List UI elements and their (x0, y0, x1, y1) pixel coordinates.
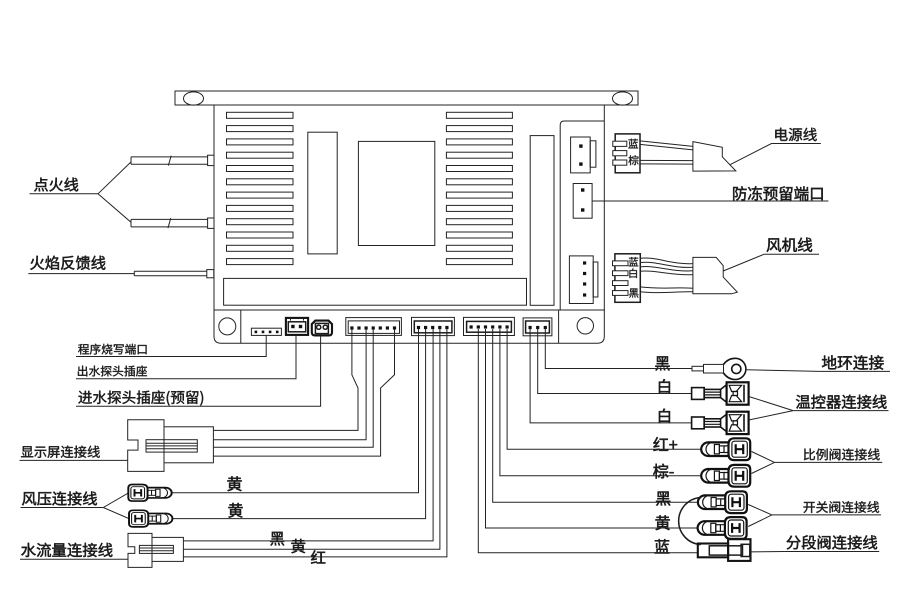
label hei4 (black) (656, 491, 670, 505)
thermostat label underline (793, 410, 888, 412)
outlet probe socket J2 (286, 318, 308, 335)
label fenduanfa lianjiexian (segmented valve connecting wire) (787, 535, 878, 549)
label bai (white) (629, 268, 636, 278)
label chengxu shaoxie duankou (programming port) (78, 344, 146, 355)
thermostat terminal 2 (692, 412, 749, 434)
right connector panel (560, 121, 604, 310)
prop valve label underline (775, 461, 883, 463)
connector CN1 (power header) (571, 137, 591, 173)
component block A (308, 132, 337, 254)
thermostat wire 1 (538, 329, 692, 394)
fan plug (693, 257, 737, 293)
flame feedback wire (134, 271, 207, 275)
display leader line (20, 459, 128, 461)
ignition fork lower (98, 194, 131, 223)
antifreeze line (592, 200, 828, 202)
switch valve wire 1 (493, 329, 698, 502)
connector CN3 (fan header) (569, 256, 593, 304)
prop valve terminal 2 (701, 465, 750, 487)
switch valve label underline (772, 514, 881, 516)
wind pressure leader (21, 507, 104, 509)
board footer strip (214, 310, 604, 343)
ground wire right (747, 370, 819, 372)
screw hole left (219, 318, 236, 335)
label dianhuoxian (ignition wire) (34, 178, 78, 192)
segment valve connector (698, 544, 728, 558)
label huoyanfankuixian (flame feedback wire) (30, 256, 105, 270)
display leader tick (128, 458, 133, 460)
display ribbon (146, 440, 197, 452)
water flow plug housing (128, 533, 152, 567)
ground label underline (819, 370, 890, 372)
label bai3 (white) (659, 409, 670, 423)
segment valve label underline (784, 551, 879, 553)
thermostat terminal 1 (692, 382, 749, 404)
water flow plug body (152, 537, 183, 561)
ground wire (545, 329, 692, 369)
display plug housing (128, 420, 164, 472)
label lan2 (blue) (629, 257, 638, 266)
thermostat wire 2 (530, 329, 692, 423)
inlet probe socket J3 (reserved) (312, 321, 332, 336)
mounting bar (175, 91, 638, 105)
switch valve terminal 2 (698, 517, 747, 539)
label dianyuanxian (power wire) (775, 128, 816, 141)
wind pressure wire 1 (172, 329, 419, 493)
wind pressure fork upper (103, 493, 128, 507)
label huang3 (yellow) (291, 539, 305, 553)
prop valve terminal 1 (701, 438, 750, 460)
label kaiguanfa lianjiexian (switch valve connecting wire) (803, 501, 879, 513)
label biliefa lianjiexian (proportional valve connecting wire) (804, 448, 880, 460)
ignition lead line (30, 193, 99, 195)
power plug (693, 142, 736, 172)
switch valve leader fork (748, 505, 772, 527)
label zong- (brown-) (653, 464, 673, 479)
flame feedback terminal (207, 270, 214, 278)
programming port connector J1 (251, 328, 281, 335)
label hei3 (black) (655, 356, 669, 370)
label hei2 (black) (270, 532, 284, 546)
switch valve terminal 1 (698, 491, 747, 513)
label hong2 (red) (311, 550, 325, 563)
thermostat leader fork (749, 397, 793, 421)
fan leader line (723, 254, 819, 271)
label shuiliuliang lianjiexian (water flow connecting wire) (21, 543, 112, 557)
water flow ribbon (139, 545, 173, 553)
fan pigtail block (615, 254, 640, 302)
water flow wire 2 (183, 329, 440, 549)
ignition wire upper (131, 157, 208, 164)
display wire 4 (213, 329, 394, 456)
programming port leader (76, 336, 266, 357)
display wire 1 (213, 329, 358, 430)
label jinshui tantou chazuo yuliu (inlet probe socket reserved) (78, 390, 203, 405)
label bai2 (white) (659, 379, 670, 393)
prop valve leader fork (752, 452, 775, 474)
wind pressure wire 2 (173, 329, 426, 519)
control board outline (214, 105, 604, 310)
wind pressure spade terminal 1 (128, 485, 171, 502)
power pigtail block (615, 134, 640, 173)
display header J4 (7-pin) (346, 318, 402, 336)
label lan3 (blue) (655, 539, 670, 553)
screw hole right (577, 318, 593, 334)
label hei (black) (629, 288, 638, 297)
water flow leader (20, 558, 128, 560)
label dihuan lianjie (ground ring connection) (822, 355, 884, 369)
label zong (brown) (628, 155, 638, 165)
connector CN2 (antifreeze header) (573, 184, 592, 219)
ground ring terminal (692, 366, 704, 371)
terminal strip block (224, 278, 527, 305)
mounting hole left (184, 92, 204, 105)
ignition terminal lower (208, 218, 214, 228)
switch valve slack loop arc (679, 498, 701, 545)
segment valve wire (478, 329, 698, 553)
prop valve wire 2 (500, 329, 701, 476)
ignition wire lower (131, 219, 208, 227)
water flow wire 3 (183, 329, 447, 557)
label chushui tantou chazuo (outlet probe socket) (78, 366, 147, 377)
sensor header J5 (5-pin) (412, 317, 455, 335)
wind pressure spade terminal 2 (129, 510, 172, 527)
label xianshiping lianjiexian (display connecting wire) (21, 446, 100, 458)
label huang1 (yellow) (227, 476, 241, 491)
thermostat header J7 (3-pin) (523, 318, 552, 336)
label fengjixian (fan wire) (767, 238, 813, 252)
label fengya lianjiexian (wind pressure connecting wire) (22, 491, 97, 505)
ignition terminal upper (208, 155, 214, 165)
label hong+ (red+) (653, 437, 677, 451)
display plug body (164, 427, 213, 463)
prop valve wire 1 (507, 329, 701, 449)
fan wires (640, 258, 693, 293)
power leader line (730, 144, 821, 165)
label wenkongqi lianjiexian (thermostat connecting wire) (796, 395, 887, 409)
flame feedback lead (28, 273, 134, 275)
mounting hole right (613, 92, 633, 105)
ignition fork upper (98, 162, 131, 194)
water flow wire 1 (183, 329, 433, 541)
valve header J6 (6-pin) (464, 317, 515, 335)
heat-sink slats right (446, 112, 512, 118)
label fangdong yuliu duankou (antifreeze reserved port) (733, 186, 823, 200)
inlet probe leader (76, 336, 321, 406)
power wires (640, 141, 693, 164)
label lan (blue) (628, 139, 638, 149)
relay block (central square) (358, 141, 434, 245)
label huang2 (yellow) (228, 503, 242, 518)
footer divider right (558, 310, 560, 343)
component block B (530, 136, 554, 306)
label huang4 (yellow) (655, 515, 669, 530)
segment valve wire right (751, 551, 785, 553)
heat-sink slats left (227, 112, 294, 118)
switch valve wire 2 (486, 329, 698, 528)
footer divider left (240, 310, 242, 343)
outlet probe leader (76, 335, 296, 379)
wind pressure fork lower (103, 508, 128, 519)
display wire 3 (213, 329, 373, 447)
display wire 2 (213, 329, 366, 440)
